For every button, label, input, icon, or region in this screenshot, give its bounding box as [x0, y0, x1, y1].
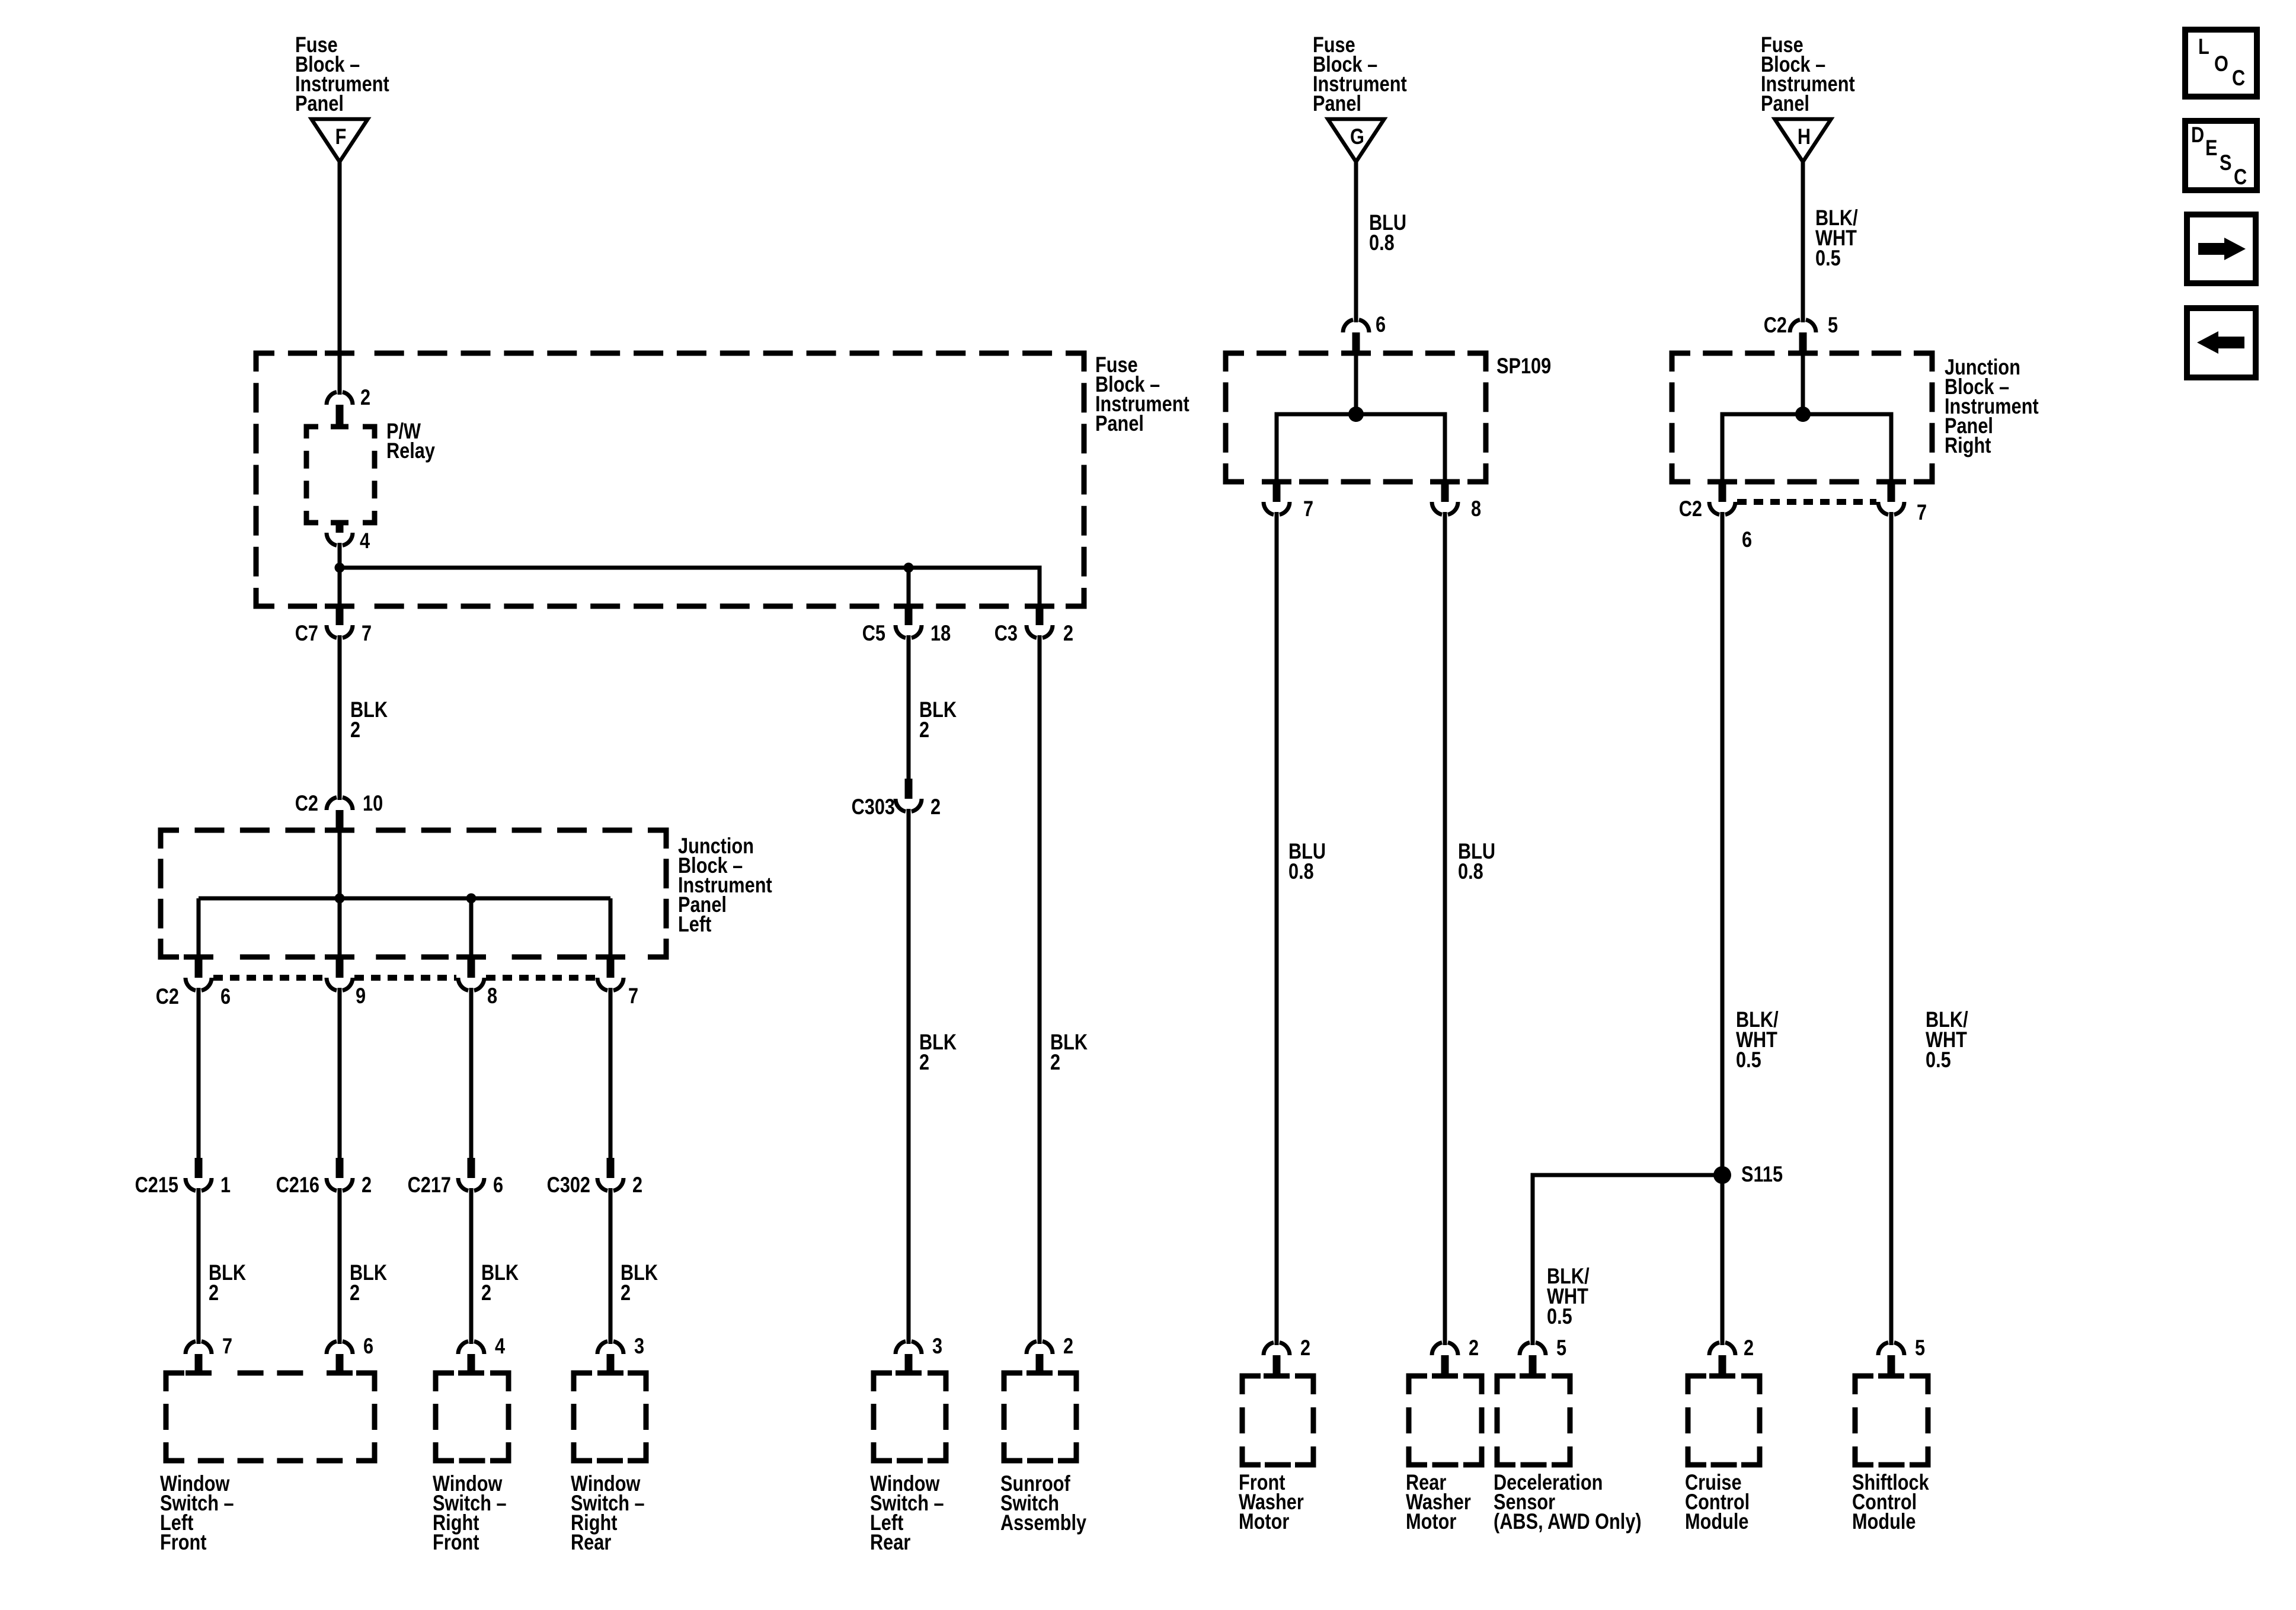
- junction at C5 branch: [904, 563, 914, 573]
- shiftlock control module dashed outline: [1855, 1376, 1928, 1465]
- label Deceleration Sensor (ABS, AWD Only): [1494, 1470, 1642, 1534]
- window switch pin 6 stub: [336, 1354, 344, 1373]
- wire SP109-8 to rear washer motor: [1443, 517, 1447, 1342]
- pin number 3: [932, 1334, 942, 1358]
- shiftlock control connector pin 5: [1878, 1340, 1904, 1355]
- bus drop left: [197, 898, 201, 957]
- svg-text:Panel: Panel: [1095, 411, 1144, 436]
- label C303: [852, 795, 895, 819]
- front washer pin stub: [1273, 1355, 1281, 1376]
- junction at pin4/C7: [335, 563, 345, 573]
- C2 row stub at 1030: [607, 957, 615, 978]
- label C217: [408, 1173, 451, 1197]
- svg-text:2: 2: [362, 1173, 372, 1197]
- C2 row stub at 795: [468, 957, 475, 978]
- label C2 (pin5): [1764, 313, 1787, 337]
- junction block - instrument panel right dashed outline: [1672, 353, 1932, 482]
- svg-text:2: 2: [621, 1281, 631, 1305]
- label Junction Block - Instrument Panel Right: [1945, 355, 2039, 457]
- legend LOC box: [2185, 30, 2257, 97]
- wire label BLK/WHT 0.5 (H): [1815, 206, 1858, 270]
- svg-text:2: 2: [350, 718, 360, 742]
- connector C2 pin 8: [458, 978, 484, 993]
- SP109 pin 8 stub: [1441, 482, 1449, 502]
- label Sunroof Switch Assembly: [1000, 1471, 1086, 1535]
- pin number 8: [1471, 497, 1481, 521]
- wire label BLK 2 (sunroof col): [1050, 1030, 1088, 1074]
- label C5: [862, 621, 885, 645]
- svg-text:0.5: 0.5: [1547, 1304, 1572, 1329]
- pin number 2: [1469, 1336, 1479, 1360]
- svg-text:8: 8: [1471, 497, 1481, 521]
- wire C3 to sunroof switch: [1038, 640, 1042, 1339]
- window switch connector pin 3: [597, 1339, 623, 1354]
- wire S115 to deceleration sensor: [1533, 1175, 1722, 1342]
- deceleration pin stub: [1529, 1355, 1537, 1376]
- wire C2-6 to S115: [1721, 517, 1725, 1175]
- svg-text:7: 7: [1917, 500, 1927, 524]
- svg-text:6: 6: [220, 984, 231, 1009]
- label C302: [547, 1173, 590, 1197]
- svg-text:C217: C217: [408, 1173, 451, 1197]
- connector pin 2 of P/W relay: [327, 389, 353, 405]
- C2 pin 5 stub: [1799, 332, 1807, 353]
- svg-text:Front: Front: [433, 1530, 479, 1554]
- svg-text:Rear: Rear: [571, 1530, 611, 1554]
- bus drop right: [609, 898, 613, 957]
- label P/W Relay: [386, 419, 435, 463]
- svg-text:SP109: SP109: [1496, 354, 1551, 378]
- window switch connector pin 4: [458, 1339, 484, 1354]
- C215 stub: [195, 1158, 203, 1178]
- svg-text:2: 2: [632, 1173, 642, 1197]
- svg-text:C216: C216: [276, 1173, 319, 1197]
- branch wire down at C5: [907, 568, 911, 606]
- pin number 2: [930, 795, 941, 819]
- svg-text:2: 2: [209, 1281, 219, 1305]
- svg-text:0.8: 0.8: [1458, 859, 1483, 884]
- C2 row stub at 573: [336, 957, 344, 978]
- wire label BLK/WHT 0.5 (shiftlock): [1926, 1007, 1968, 1072]
- connector C302 pin 2: [597, 1178, 623, 1193]
- wire pin4 to bus: [338, 548, 342, 568]
- connector pin 6 into SP109: [1343, 317, 1369, 332]
- junction block right dot: [1795, 406, 1811, 422]
- wire label BLK/WHT 0.5 (decel): [1547, 1264, 1590, 1329]
- svg-text:Left: Left: [678, 912, 711, 936]
- label Fuse Block - Instrument Panel (H): [1761, 33, 1855, 116]
- svg-text:5: 5: [1915, 1336, 1925, 1360]
- pin number 7: [628, 984, 638, 1008]
- wire label BLU 0.8 (front washer): [1288, 839, 1326, 884]
- pin number 9: [356, 984, 366, 1008]
- connector SP109 pin 8: [1432, 502, 1458, 517]
- shiftlock pin stub: [1888, 1355, 1895, 1376]
- deceleration sensor dashed outline: [1497, 1376, 1570, 1465]
- svg-text:O: O: [2214, 52, 2228, 76]
- window switch left rear dashed outline: [874, 1373, 946, 1461]
- sunroof switch assembly dashed outline: [1004, 1373, 1076, 1461]
- bus drop mid: [338, 898, 342, 957]
- wire C216 column upper: [338, 993, 342, 1158]
- window switch left front dashed outline: [166, 1373, 375, 1461]
- sunroof pin stub: [1036, 1354, 1044, 1373]
- svg-text:4: 4: [495, 1334, 505, 1358]
- wire label BLU 0.8 (G): [1369, 210, 1406, 255]
- wire label BLK 2 (C216 col): [350, 1260, 388, 1305]
- svg-text:F: F: [335, 124, 347, 149]
- off-page connector G (Fuse Block - Instrument Panel): [1328, 119, 1384, 162]
- svg-text:2: 2: [919, 1050, 929, 1074]
- svg-text:Front: Front: [160, 1530, 206, 1554]
- svg-text:C5: C5: [862, 621, 885, 645]
- svg-text:Motor: Motor: [1239, 1509, 1289, 1534]
- svg-text:6: 6: [493, 1173, 503, 1197]
- wire C216 column lower: [338, 1193, 342, 1339]
- deceleration sensor connector pin 5: [1520, 1340, 1546, 1355]
- connector C7 pin 7: [327, 625, 353, 641]
- C303 stub: [905, 779, 913, 799]
- legend right-arrow box: [2187, 215, 2256, 283]
- window switch left rear pin stub: [905, 1354, 913, 1373]
- connector pin 4 of P/W relay: [327, 533, 353, 548]
- svg-text:H: H: [1798, 124, 1811, 149]
- svg-text:7: 7: [1303, 497, 1313, 521]
- svg-text:2: 2: [1063, 621, 1073, 645]
- connector C2 pin 6 (right): [1709, 502, 1735, 517]
- wire C7 to C2: [338, 640, 342, 796]
- connector C2 pin 5: [1790, 317, 1816, 332]
- legend DESC box: [2185, 121, 2257, 190]
- svg-text:2: 2: [1050, 1050, 1060, 1074]
- junction block - instrument panel left dashed outline: [161, 830, 666, 957]
- svg-text:G: G: [1350, 124, 1364, 149]
- wire C302 column upper: [609, 993, 613, 1158]
- label C7: [295, 621, 318, 645]
- window switch right rear dashed outline: [574, 1373, 646, 1461]
- window switch connector pin 6: [327, 1339, 353, 1354]
- wire label BLK/WHT 0.5 (cruise): [1736, 1007, 1779, 1072]
- svg-text:Panel: Panel: [1761, 91, 1809, 116]
- SP109 dashed outline: [1226, 353, 1486, 482]
- svg-text:0.8: 0.8: [1369, 231, 1395, 255]
- svg-text:L: L: [2198, 34, 2209, 59]
- label Window Switch - Left Rear: [870, 1471, 944, 1554]
- connector SP109 pin 7: [1264, 502, 1290, 517]
- wire from G to SP109: [1354, 162, 1358, 318]
- label Front Washer Motor: [1239, 1470, 1304, 1534]
- svg-text:7: 7: [362, 621, 372, 645]
- label SP109: [1496, 354, 1551, 378]
- wire label BLK 2 (C215 col): [209, 1260, 247, 1305]
- svg-text:3: 3: [634, 1334, 644, 1358]
- C302 stub: [607, 1158, 615, 1178]
- legend left-arrow box: [2187, 308, 2256, 377]
- label Window Switch - Left Front: [160, 1471, 234, 1554]
- pin number 10: [363, 791, 383, 815]
- svg-text:2: 2: [1300, 1336, 1310, 1360]
- label S115: [1741, 1162, 1783, 1186]
- junction dot at col A2: [335, 894, 345, 904]
- svg-text:Right: Right: [1945, 433, 1991, 457]
- pin number 7: [1303, 497, 1313, 521]
- connector C216 pin 2: [327, 1178, 353, 1193]
- wire from H to junction block right: [1801, 162, 1805, 318]
- connector C215 pin 1: [186, 1178, 212, 1193]
- svg-text:2: 2: [930, 795, 941, 819]
- pin number 6: [220, 984, 231, 1009]
- label Fuse Block - Instrument Panel (F): [295, 33, 389, 116]
- label Rear Washer Motor: [1406, 1470, 1471, 1534]
- svg-text:7: 7: [628, 984, 638, 1008]
- connector C5 pin 18: [896, 625, 922, 641]
- C2 pin 10 stub: [336, 810, 344, 830]
- svg-text:D: D: [2191, 123, 2204, 147]
- window switch pin 4 stub: [468, 1354, 475, 1373]
- junction block right internal bus: [1722, 414, 1891, 482]
- pin number 2: [1300, 1336, 1310, 1360]
- pin number 2: [1744, 1336, 1754, 1360]
- cruise control connector pin 2: [1709, 1340, 1735, 1355]
- svg-text:0.5: 0.5: [1926, 1048, 1951, 1072]
- pin number 6: [493, 1173, 503, 1197]
- label Fuse Block - Instrument Panel (box): [1095, 353, 1189, 436]
- wire C217 column upper: [469, 993, 474, 1158]
- connector C2 pin 6: [186, 978, 212, 993]
- connector C2 pin 7: [597, 978, 623, 993]
- svg-text:C303: C303: [852, 795, 895, 819]
- connector C2 pin 10: [327, 795, 353, 810]
- pin number 7: [362, 621, 372, 645]
- cruise control module dashed outline: [1688, 1376, 1760, 1465]
- wire label BLK 2 (C5 col): [919, 697, 957, 742]
- wire label BLU 0.8 (rear washer): [1458, 839, 1495, 884]
- wire C2-7 to shiftlock: [1889, 517, 1894, 1342]
- label Shiftlock Control Module: [1852, 1470, 1929, 1534]
- C2 right row stub 7: [1888, 482, 1895, 502]
- svg-text:6: 6: [363, 1334, 373, 1358]
- junction block right feed wire: [1801, 353, 1805, 414]
- svg-text:18: 18: [930, 621, 951, 645]
- svg-text:2: 2: [360, 385, 370, 409]
- window switch connector pin 7: [186, 1339, 212, 1354]
- svg-text:1: 1: [220, 1173, 231, 1197]
- label Window Switch - Right Rear: [571, 1471, 645, 1554]
- label C2 (right row): [1679, 497, 1702, 521]
- pin number 4: [360, 529, 370, 553]
- off-page connector H (Fuse Block - Instrument Panel): [1775, 119, 1831, 162]
- svg-text:Module: Module: [1852, 1509, 1916, 1534]
- svg-text:0.5: 0.5: [1815, 246, 1841, 270]
- pin 6 stub: [1352, 332, 1360, 353]
- splice S115: [1713, 1166, 1731, 1184]
- off-page connector F (Fuse Block - Instrument Panel): [312, 119, 368, 162]
- svg-text:(ABS, AWD Only): (ABS, AWD Only): [1494, 1509, 1642, 1534]
- wire C5 to C303: [907, 640, 911, 781]
- svg-text:E: E: [2205, 136, 2217, 160]
- pin number 6: [363, 1334, 373, 1358]
- svg-text:C215: C215: [135, 1173, 178, 1197]
- wire label BLK 2 (left rear col): [919, 1030, 957, 1074]
- wire C7 branch down: [338, 568, 342, 606]
- wire C215 column upper: [197, 993, 201, 1158]
- svg-text:0.8: 0.8: [1288, 859, 1314, 884]
- wire C217 column lower: [469, 1193, 474, 1339]
- SP109 feed wire: [1354, 353, 1358, 414]
- rear washer motor dashed outline: [1409, 1376, 1482, 1465]
- wire label BLK 2 (C217 col): [481, 1260, 519, 1305]
- wire C302 column lower: [609, 1193, 613, 1339]
- pin number 7: [222, 1334, 232, 1358]
- window switch left rear connector pin 3: [896, 1339, 922, 1354]
- pin number 2: [360, 385, 370, 409]
- svg-text:Rear: Rear: [870, 1530, 910, 1554]
- svg-text:6: 6: [1742, 527, 1752, 552]
- svg-text:4: 4: [360, 529, 370, 553]
- P/W relay dashed outline: [306, 427, 375, 523]
- label Window Switch - Right Front: [433, 1471, 507, 1554]
- dotted connector line C2 right row: [1737, 499, 1876, 505]
- fuse block internal bus wire: [340, 568, 1040, 606]
- sunroof switch connector pin 2: [1027, 1339, 1053, 1354]
- pin 2 stub: [336, 405, 344, 428]
- SP109 pin 7 stub: [1273, 482, 1281, 502]
- svg-text:C7: C7: [295, 621, 318, 645]
- label Junction Block - Instrument Panel Left: [678, 834, 772, 936]
- SP109 junction dot: [1348, 406, 1364, 422]
- label C2: [295, 791, 318, 815]
- window switch pin 3 stub: [607, 1354, 615, 1373]
- connector C217 pin 6: [458, 1178, 484, 1193]
- bus drop col3: [469, 898, 474, 957]
- junction dot at col A3: [466, 894, 477, 904]
- pin number 6: [1376, 312, 1386, 337]
- pin number 5: [1828, 313, 1838, 337]
- pin number 18: [930, 621, 951, 645]
- pin number 5: [1915, 1336, 1925, 1360]
- C217 stub: [468, 1158, 475, 1178]
- svg-text:C302: C302: [547, 1173, 590, 1197]
- pin number 2: [1063, 1334, 1073, 1358]
- dotted connector line C2 row: [213, 975, 596, 981]
- svg-text:C: C: [2234, 165, 2247, 189]
- wire S115 to cruise control: [1721, 1175, 1725, 1342]
- svg-text:8: 8: [487, 984, 497, 1008]
- label C2 (row): [156, 984, 179, 1009]
- label C216: [276, 1173, 319, 1197]
- rear washer motor connector pin 2: [1432, 1340, 1458, 1355]
- C7 pin stub: [336, 606, 344, 625]
- svg-text:2: 2: [481, 1281, 491, 1305]
- svg-text:C2: C2: [1679, 497, 1702, 521]
- wire C215 column lower: [197, 1193, 201, 1339]
- pin number 1: [220, 1173, 231, 1197]
- SP109 internal bus: [1277, 414, 1445, 482]
- pin number 2: [362, 1173, 372, 1197]
- svg-text:2: 2: [1744, 1336, 1754, 1360]
- label C215: [135, 1173, 178, 1197]
- label Cruise Control Module: [1685, 1470, 1750, 1534]
- pin number 7 (right): [1917, 500, 1927, 524]
- svg-text:0.5: 0.5: [1736, 1048, 1761, 1072]
- svg-text:9: 9: [356, 984, 366, 1008]
- pin number 3: [634, 1334, 644, 1358]
- window switch pin 7 stub: [195, 1354, 203, 1373]
- svg-text:Motor: Motor: [1406, 1509, 1456, 1534]
- svg-text:Assembly: Assembly: [1000, 1510, 1086, 1535]
- front washer motor connector pin 2: [1264, 1340, 1290, 1355]
- wire from F to fuse block: [338, 162, 342, 389]
- rear washer pin stub: [1441, 1355, 1449, 1376]
- connector C3 pin 2: [1027, 625, 1053, 641]
- front washer motor dashed outline: [1242, 1376, 1313, 1465]
- wire label BLK 2 (C302 col): [621, 1260, 658, 1305]
- pin number 2: [632, 1173, 642, 1197]
- svg-text:C: C: [2232, 66, 2245, 90]
- svg-text:3: 3: [932, 1334, 942, 1358]
- wire SP109-7 to front washer motor: [1275, 517, 1279, 1342]
- C5 pin stub: [905, 606, 913, 625]
- label C3: [994, 621, 1018, 645]
- pin number 2: [1063, 621, 1073, 645]
- svg-text:7: 7: [222, 1334, 232, 1358]
- pin number 8: [487, 984, 497, 1008]
- junction block internal bus: [199, 897, 610, 901]
- C2 row stub at 335: [195, 957, 203, 978]
- svg-text:Panel: Panel: [295, 91, 344, 116]
- pin number 4: [495, 1334, 505, 1358]
- wire C303 to window switch left rear: [907, 814, 911, 1339]
- wire label BLK 2: [350, 697, 388, 742]
- C3 pin stub: [1036, 606, 1044, 625]
- svg-text:C3: C3: [994, 621, 1018, 645]
- svg-text:5: 5: [1828, 313, 1838, 337]
- C216 stub: [336, 1158, 344, 1178]
- svg-text:2: 2: [1469, 1336, 1479, 1360]
- connector C2 pin 9: [327, 978, 353, 993]
- svg-text:S115: S115: [1741, 1162, 1783, 1186]
- svg-text:S: S: [2220, 151, 2231, 175]
- pin number 6 (right): [1742, 527, 1752, 552]
- wire C2-10 into junction block: [338, 830, 342, 898]
- pin 4 stub: [336, 521, 344, 533]
- svg-text:Relay: Relay: [386, 438, 435, 463]
- svg-text:10: 10: [363, 791, 383, 815]
- svg-text:6: 6: [1376, 312, 1386, 337]
- svg-text:C2: C2: [295, 791, 318, 815]
- C2 right row stub 6: [1719, 482, 1726, 502]
- svg-text:Panel: Panel: [1313, 91, 1361, 116]
- window switch right front dashed outline: [436, 1373, 509, 1461]
- svg-text:2: 2: [350, 1281, 360, 1305]
- svg-text:C2: C2: [156, 984, 179, 1009]
- connector C303 pin 2: [896, 799, 922, 814]
- svg-text:2: 2: [919, 718, 929, 742]
- svg-text:2: 2: [1063, 1334, 1073, 1358]
- cruise pin stub: [1719, 1355, 1726, 1376]
- fuse block - instrument panel dashed outline: [256, 353, 1084, 606]
- svg-text:5: 5: [1556, 1336, 1566, 1360]
- svg-text:Module: Module: [1685, 1509, 1748, 1534]
- connector C2 pin 7 (right): [1878, 502, 1904, 517]
- label Fuse Block - Instrument Panel (G): [1313, 33, 1407, 116]
- svg-text:C2: C2: [1764, 313, 1787, 337]
- pin number 5: [1556, 1336, 1566, 1360]
